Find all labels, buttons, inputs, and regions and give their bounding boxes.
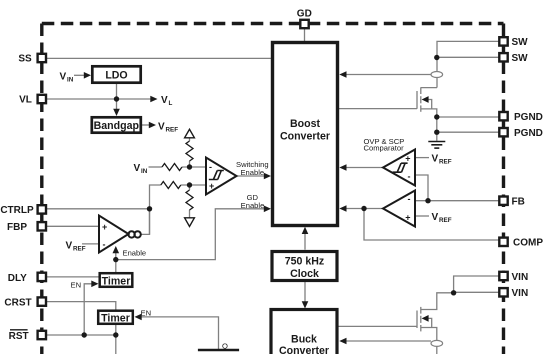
svg-text:REF: REF [439,159,452,166]
svg-text:IN: IN [141,168,148,175]
svg-text:-: - [209,162,212,172]
svg-text:Converter: Converter [279,345,329,354]
svg-text:SW: SW [512,53,529,64]
svg-text:V: V [158,121,165,132]
svg-text:V: V [134,163,141,174]
svg-text:Converter: Converter [280,130,330,142]
svg-text:EN: EN [141,308,152,317]
svg-text:VIN: VIN [512,272,529,283]
svg-text:SW: SW [512,37,529,48]
svg-text:CRST: CRST [4,298,31,309]
svg-text:PGND: PGND [514,112,543,123]
svg-text:+: + [102,222,107,232]
svg-text:Bandgap: Bandgap [94,120,140,132]
svg-text:Timer: Timer [102,275,131,287]
svg-text:PGND: PGND [514,128,543,139]
svg-text:Timer: Timer [101,313,130,325]
svg-text:+: + [405,154,410,164]
svg-text:LDO: LDO [105,70,127,82]
svg-text:Boost: Boost [290,118,320,130]
svg-text:V: V [432,212,439,223]
svg-text:Comparator: Comparator [364,144,405,153]
svg-text:REF: REF [166,126,179,133]
svg-text:Enable: Enable [123,248,147,257]
svg-text:DLY: DLY [8,273,27,284]
svg-text:Q: Q [222,342,228,351]
svg-text:Buck: Buck [291,334,317,346]
svg-text:RST: RST [9,331,29,342]
svg-text:L: L [169,100,173,107]
svg-text:-: - [408,194,411,204]
svg-text:REF: REF [439,217,452,224]
svg-text:REF: REF [73,245,86,252]
svg-text:Clock: Clock [290,268,319,280]
svg-text:GD: GD [297,8,312,19]
svg-text:V: V [432,154,439,165]
svg-text:750 kHz: 750 kHz [285,256,324,268]
svg-text:CTRLP: CTRLP [0,205,34,216]
svg-text:COMP: COMP [513,238,543,249]
svg-text:-: - [408,172,411,182]
svg-text:V: V [66,240,73,251]
svg-text:+: + [405,212,410,222]
svg-text:+: + [209,181,214,191]
svg-text:-: - [103,240,106,250]
svg-text:VIN: VIN [512,288,529,299]
svg-text:VL: VL [19,95,32,106]
svg-text:Enable: Enable [240,168,264,177]
svg-text:EN: EN [71,280,82,289]
svg-text:FBP: FBP [7,222,27,233]
svg-text:Enable: Enable [241,201,265,210]
svg-text:FB: FB [512,197,525,208]
svg-text:SS: SS [18,54,32,65]
svg-text:V: V [60,71,67,82]
svg-text:V: V [161,95,168,106]
svg-text:IN: IN [67,76,74,83]
